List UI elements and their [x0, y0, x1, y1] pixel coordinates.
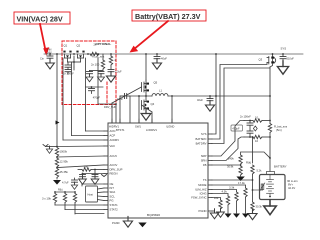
net tie diamond	[253, 126, 257, 131]
svg-text:470pF: 470pF	[232, 127, 240, 131]
svg-text:ILIM_HIZ: ILIM_HIZ	[195, 188, 207, 192]
wire bend into ACDRV pin	[63, 139, 104, 141]
svg-text:Battry(VBAT) 27.3V: Battry(VBAT) 27.3V	[135, 12, 201, 21]
wire SW node	[120, 95, 152, 97]
wire battery negative	[269, 200, 271, 206]
capacitor SYS output	[280, 54, 294, 64]
svg-text:R(k): R(k)	[246, 161, 251, 165]
wire VAC tap	[57, 145, 104, 148]
svg-text:SRN: SRN	[201, 159, 207, 163]
node flag near REGN	[102, 175, 107, 177]
svg-text:Q1: Q1	[64, 44, 68, 48]
wire vertical column D (to DRV_SUP node)	[97, 58, 99, 104]
capacitor pair in box	[87, 71, 105, 77]
resistor Rbat_sns 5m	[268, 121, 287, 138]
svg-text:ACN: ACN	[110, 129, 116, 133]
svg-text:LODRV1: LODRV1	[146, 128, 157, 132]
svg-text:STAT2: STAT2	[110, 208, 119, 212]
wire output rail y96	[168, 95, 270, 97]
svg-text:510uF: 510uF	[287, 57, 295, 61]
wire LODRV diagonal to Q4 gate	[130, 96, 152, 123]
callout box VIN(VAC) 28V	[14, 12, 70, 24]
capacitor REGN bypass	[92, 169, 98, 178]
svg-text:10: 10	[255, 139, 259, 143]
svg-text:10k: 10k	[214, 196, 219, 200]
svg-text:ACP: ACP	[110, 134, 116, 138]
node AGND flag left of divider	[43, 145, 57, 149]
transistor Q5 high-side	[142, 53, 158, 96]
svg-text:ACOV: ACOV	[110, 163, 118, 167]
svg-text:ACDRV: ACDRV	[110, 138, 120, 142]
resistor pull-up 1	[53, 192, 56, 205]
svg-text:DRV_SUP: DRV_SUP	[110, 168, 123, 172]
wire gate network Q1/Q2	[68, 56, 81, 67]
wire LGND riser	[171, 96, 173, 123]
IC top pin stubs	[112, 119, 172, 123]
capacitor 470pF in box	[86, 86, 104, 99]
svg-text:OPTIONAL: OPTIONAL	[96, 42, 112, 46]
wire ACUV tap	[57, 156, 104, 157]
svg-text:PG: PG	[110, 199, 114, 203]
svg-text:MODE: MODE	[198, 183, 206, 187]
svg-text:DRV_SUP: DRV_SUP	[104, 105, 116, 109]
resistor 12.95k divider	[55, 156, 68, 167]
svg-text:SYS: SYS	[281, 47, 287, 51]
svg-text:Q3: Q3	[259, 58, 263, 62]
svg-text:BTST1: BTST1	[116, 128, 125, 132]
svg-text:12.95k: 12.95k	[60, 160, 69, 164]
svg-text:Q2: Q2	[77, 44, 81, 48]
resistor 2R snubber	[109, 53, 116, 69]
ground FSW hollow	[217, 208, 225, 217]
ground ILIM solid	[233, 214, 240, 218]
wire SW riser	[138, 96, 140, 123]
resistor 30.3k TS bottom	[251, 202, 263, 213]
svg-text:BATTERY: BATTERY	[274, 165, 287, 169]
capacitor 40uF output	[197, 95, 213, 103]
ground MODE solid	[242, 214, 249, 218]
wire BAT vertical rail	[269, 67, 271, 121]
capacitor 2.2uF snubber	[108, 70, 122, 75]
callout box Battry(VBAT) 27.3V	[132, 10, 206, 21]
svg-text:/LGND: /LGND	[166, 125, 174, 129]
svg-text:240k: 240k	[228, 157, 234, 161]
resistor 100R DRV_SUP	[78, 165, 104, 172]
thermistor in battery	[253, 183, 265, 191]
capacitor 2x 100nF sense filter	[240, 115, 253, 138]
wire SRN route	[212, 137, 244, 161]
resistor 2x 100 vertical in box	[91, 54, 105, 71]
svg-text:1000k: 1000k	[60, 150, 68, 154]
arrow from VIN callout	[40, 24, 49, 56]
capacitor 2x 100nF (gate caps)	[63, 62, 74, 76]
ground below Cin	[46, 59, 55, 69]
wire BTST riser	[119, 96, 121, 123]
svg-text:5.2k: 5.2k	[257, 169, 263, 173]
svg-text:BQ25820: BQ25820	[147, 213, 160, 217]
arrow from VBAT callout	[130, 21, 169, 53]
wire FB pin	[212, 164, 241, 166]
capacitor 40uF input	[154, 53, 167, 61]
ground below battery	[264, 200, 277, 215]
svg-text:ICHG: ICHG	[200, 192, 207, 196]
battery box	[260, 165, 287, 200]
transistor Q4 low-side	[142, 96, 155, 112]
svg-text:PGND: PGND	[199, 209, 207, 213]
wire vertical column A (to ACDRV)	[62, 58, 64, 140]
wire FSW_SYNC	[212, 196, 222, 211]
svg-text:VAC: VAC	[110, 144, 115, 148]
svg-text:ACUV: ACUV	[110, 154, 118, 158]
svg-text:SW1: SW1	[135, 125, 141, 129]
svg-text:FB: FB	[203, 163, 207, 167]
svg-text:2.2uF: 2.2uF	[115, 70, 122, 74]
svg-text:Q5: Q5	[154, 81, 158, 85]
wire BATSRC nested route	[212, 63, 267, 140]
svg-text:REGN: REGN	[110, 172, 118, 176]
wire ILIM_HIZ	[212, 186, 238, 213]
svg-text:10: 10	[255, 116, 259, 120]
ground at PGND right pin	[210, 209, 218, 219]
svg-text:8V+: 8V+	[288, 183, 293, 187]
svg-text:BATDRV: BATDRV	[196, 142, 207, 146]
svg-text:3 x 10k: 3 x 10k	[42, 197, 51, 201]
transistor Q1	[63, 44, 71, 59]
svg-text:Q4: Q4	[151, 102, 155, 106]
ground below FB divider	[236, 177, 244, 182]
capacitor DRV_SUP bypass	[80, 173, 105, 178]
wire vertical column C (to ACN)	[85, 58, 87, 131]
wire BATDRV nested route	[212, 68, 270, 144]
transistor Q3 BATFET	[259, 54, 276, 67]
svg-text:CE: CE	[110, 182, 114, 186]
op-amp U1 charger IC BQ25820 box	[108, 123, 208, 218]
ground below Q4	[141, 109, 151, 121]
battery cells	[267, 175, 274, 197]
wire TS pin	[212, 179, 253, 181]
svg-text:INT: INT	[110, 186, 115, 190]
wire HIDRV diagonal to Q5 gate	[112, 87, 142, 123]
ground below TS divider	[248, 209, 257, 220]
svg-text:STAT1: STAT1	[110, 203, 119, 207]
svg-text:100: 100	[84, 165, 89, 169]
resistor 1000k divider	[55, 148, 67, 157]
ground solid below IC	[138, 223, 146, 228]
capacitor 470pF label box	[231, 125, 243, 131]
svg-text:SRP: SRP	[201, 154, 207, 158]
wire ACOV tap	[57, 165, 104, 168]
IC left pin stubs	[104, 131, 108, 210]
svg-text:30.3k: 30.3k	[256, 205, 263, 209]
ground hollow below IC	[123, 216, 132, 227]
svg-text:17.4k: 17.4k	[238, 181, 245, 185]
svg-text:Cin: Cin	[40, 57, 44, 61]
svg-text:470pF: 470pF	[93, 95, 101, 99]
svg-text:FSW_SYNC: FSW_SYNC	[191, 196, 206, 200]
svg-text:SCL: SCL	[110, 195, 116, 199]
resistor 240k FB top	[228, 152, 271, 164]
svg-text:BATSRC: BATSRC	[196, 137, 207, 141]
svg-text:40uF: 40uF	[161, 57, 167, 61]
svg-text:TS: TS	[203, 178, 207, 182]
wire TS net vertical	[252, 137, 254, 163]
svg-text:4.7uF: 4.7uF	[62, 181, 69, 185]
ground below SYS cap	[277, 61, 288, 74]
ground ICHG solid	[225, 214, 232, 218]
resistor 10R kelvin bottom	[244, 135, 270, 143]
svg-text:45.35k: 45.35k	[60, 170, 69, 174]
optional section dashed red box	[62, 41, 116, 105]
wire ICHG	[212, 190, 230, 213]
IC right pin stubs	[208, 134, 212, 211]
ground below output cap	[205, 100, 214, 111]
ground pair in box	[86, 74, 93, 82]
svg-text:36 Li-ion: 36 Li-ion	[287, 179, 298, 183]
wire SRP route	[212, 121, 244, 157]
resistor 30.9k FB bottom	[227, 164, 242, 176]
svg-text:R(k): R(k)	[58, 189, 63, 192]
ground below 40uF	[152, 58, 161, 69]
node flow arrow on VIN sense	[56, 121, 60, 125]
svg-text:VIN(VAC) 28V: VIN(VAC) 28V	[17, 14, 63, 23]
ground below snubber	[106, 71, 115, 82]
resistor 45.35k divider	[55, 167, 68, 179]
resistor Rac_sns 2k inline on rail	[90, 43, 105, 59]
capacitor 47nF bootstrap	[117, 94, 130, 102]
resistor 5.2k TS top	[246, 161, 262, 203]
ground solid below divider	[53, 180, 61, 185]
wire gate drop to ACDRV column	[68, 67, 74, 74]
svg-text:42.4V: 42.4V	[288, 186, 295, 190]
capacitor Cin	[40, 54, 53, 62]
svg-text:(5m): (5m)	[276, 128, 282, 132]
resistor 10R kelvin top	[244, 116, 270, 123]
wire VIN sense drop	[56, 54, 58, 147]
wire pull-up routes to STAT pins	[55, 184, 104, 214]
wire MODE	[212, 181, 247, 213]
svg-text:Host: Host	[88, 193, 94, 197]
svg-text:SYS: SYS	[201, 132, 207, 136]
capacitor 4.7uF VAC filter	[62, 178, 78, 185]
transistor Q2	[76, 44, 84, 59]
svg-text:R_bat_sns: R_bat_sns	[274, 125, 288, 129]
inductor L1	[152, 89, 168, 97]
Host box	[86, 186, 98, 202]
wire vertical column B (to ACP)	[71, 62, 73, 136]
svg-text:SDA: SDA	[110, 190, 116, 194]
svg-text:40uF: 40uF	[197, 98, 203, 102]
svg-text:2x 100nF: 2x 100nF	[240, 115, 251, 119]
resistor pull-up 2	[63, 192, 66, 210]
resistor pull-up 3	[73, 192, 76, 214]
wire Host to CE/INT/SDA/SCL	[98, 188, 105, 201]
wire SYS pin route	[212, 54, 216, 134]
svg-text:PGND: PGND	[112, 221, 120, 225]
main top rail wire	[44, 53, 303, 55]
